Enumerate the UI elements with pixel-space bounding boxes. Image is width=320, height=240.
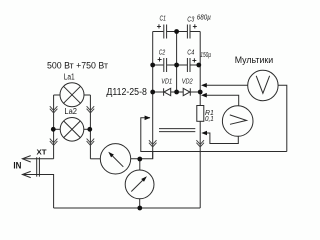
wire meter PA4 probe (corner to rail D lower node) xyxy=(206,95,239,106)
node dot C4 right at rail D xyxy=(196,63,201,68)
IN upper open arrowhead xyxy=(22,156,30,162)
svg-text:Д112-25-8: Д112-25-8 xyxy=(106,87,147,98)
wire La1 right lead xyxy=(84,94,90,96)
svg-text:+: + xyxy=(157,22,162,31)
ammeter PA2 xyxy=(125,170,154,199)
wire ammeter PA2 top lead xyxy=(139,159,141,170)
probe arrowhead at rail D upper xyxy=(201,83,207,88)
voltmeter V glyph xyxy=(256,76,269,94)
node dot ammeter junction xyxy=(137,157,142,162)
connector chevrons rail C lower xyxy=(149,140,157,147)
node dot bottom wire xyxy=(137,206,142,211)
svg-text:VD2: VD2 xyxy=(182,77,194,86)
svg-text:+: + xyxy=(157,55,162,64)
svg-text:La1: La1 xyxy=(64,72,75,81)
svg-text:+: + xyxy=(193,22,198,31)
ammeter PA2 needle head xyxy=(141,176,147,182)
wire IN lower terminal with corner down xyxy=(22,175,53,209)
node dot La2 left xyxy=(51,127,56,132)
node dot C1-C3 junction xyxy=(174,29,179,34)
node dot rail C diode row xyxy=(150,90,155,95)
wire second capacitor row xyxy=(153,64,199,66)
diode VD1 (cathode bar left, triangle pointing left) xyxy=(164,88,171,95)
wire La2 left lead xyxy=(53,128,60,130)
svg-text:IN: IN xyxy=(13,161,21,172)
DC output equals symbol xyxy=(159,129,195,132)
svg-text:+: + xyxy=(192,56,197,65)
wire rail E (mid rail joining C1/C3, C2/C4 and VD1/VD2 junctions) xyxy=(176,32,178,93)
lamp La2 xyxy=(60,118,84,142)
wire rail A (left vertical from lamps to IN upper) xyxy=(53,95,55,159)
connector XT contact bars xyxy=(37,157,40,176)
svg-text:XT: XT xyxy=(37,150,48,157)
connector chevrons rail A lower xyxy=(50,139,58,146)
wire La1 left lead xyxy=(54,94,60,96)
wire top capacitor row xyxy=(153,31,201,33)
IN lower open arrowhead xyxy=(22,171,30,177)
meter PA4 chevron glyph xyxy=(230,115,247,124)
wire bottom return xyxy=(54,207,201,209)
node dot C2-C4 junction xyxy=(174,63,179,68)
voltmeter PV1 xyxy=(248,70,278,100)
wire ammeter PA2 bottom lead xyxy=(139,199,141,208)
node dot rail C row2 xyxy=(150,63,155,68)
wire ammeter PA1 right lead to rail C corner xyxy=(131,151,153,159)
ammeter PA1 needle head xyxy=(108,152,114,158)
wire rail B (right lamp rail down to ammeter PA1) xyxy=(89,95,91,159)
svg-text:Мультики: Мультики xyxy=(235,55,274,66)
svg-text:500 Вт +750 Вт: 500 Вт +750 Вт xyxy=(47,61,109,72)
wire meter PA4 bottom loop to R1 bottom arrow xyxy=(206,133,238,144)
wire voltmeter probe upper (to node on rail D) xyxy=(206,84,248,86)
wire rail D (right capacitor/diode rail down to bottom wire) xyxy=(199,32,201,209)
wire diode row xyxy=(153,91,201,93)
capacitor C4 xyxy=(187,58,190,72)
probe arrowhead at rail C (pointing right) xyxy=(145,116,151,121)
node dot VD1-VD2 junction xyxy=(174,90,179,95)
wire rail C (left capacitor/diode rail) xyxy=(152,32,154,159)
svg-text:C4: C4 xyxy=(187,48,194,57)
wire voltmeter right side down to long wire xyxy=(278,85,287,151)
node dot La2 right xyxy=(87,127,92,132)
svg-text:680µ: 680µ xyxy=(197,15,211,22)
capacitor C2 xyxy=(164,58,167,72)
connector chevrons rail B upper xyxy=(87,106,95,113)
wire La2 right lead xyxy=(84,128,91,130)
connector chevrons rail D lower xyxy=(196,140,204,147)
svg-text:La2: La2 xyxy=(64,107,77,116)
ammeter PA1 xyxy=(100,144,130,174)
capacitor C1 xyxy=(164,25,167,39)
connector chevrons rail A upper xyxy=(50,106,58,113)
connector chevrons rail B lower xyxy=(87,139,95,146)
node dot rail D diode row xyxy=(198,90,203,95)
probe arrowhead at rail D lower xyxy=(201,93,207,98)
svg-text:0,1: 0,1 xyxy=(205,114,214,123)
svg-text:VD1: VD1 xyxy=(161,77,172,86)
lamp La1 xyxy=(60,83,84,107)
resistor R1 body xyxy=(197,106,204,122)
meter PA4 (arrow meter) xyxy=(222,106,253,137)
probe arrowhead at rail D below R1 xyxy=(201,131,207,135)
wire IN upper terminal xyxy=(22,158,53,160)
diode VD2 (triangle pointing right, cathode bar right) xyxy=(183,88,190,95)
wire ammeter PA1 left lead from rail B xyxy=(90,158,100,160)
svg-text:150µ: 150µ xyxy=(200,52,211,59)
wire long horizontal measuring wire with left corner up to probe arrow xyxy=(141,118,287,152)
capacitor C3 xyxy=(187,25,190,39)
